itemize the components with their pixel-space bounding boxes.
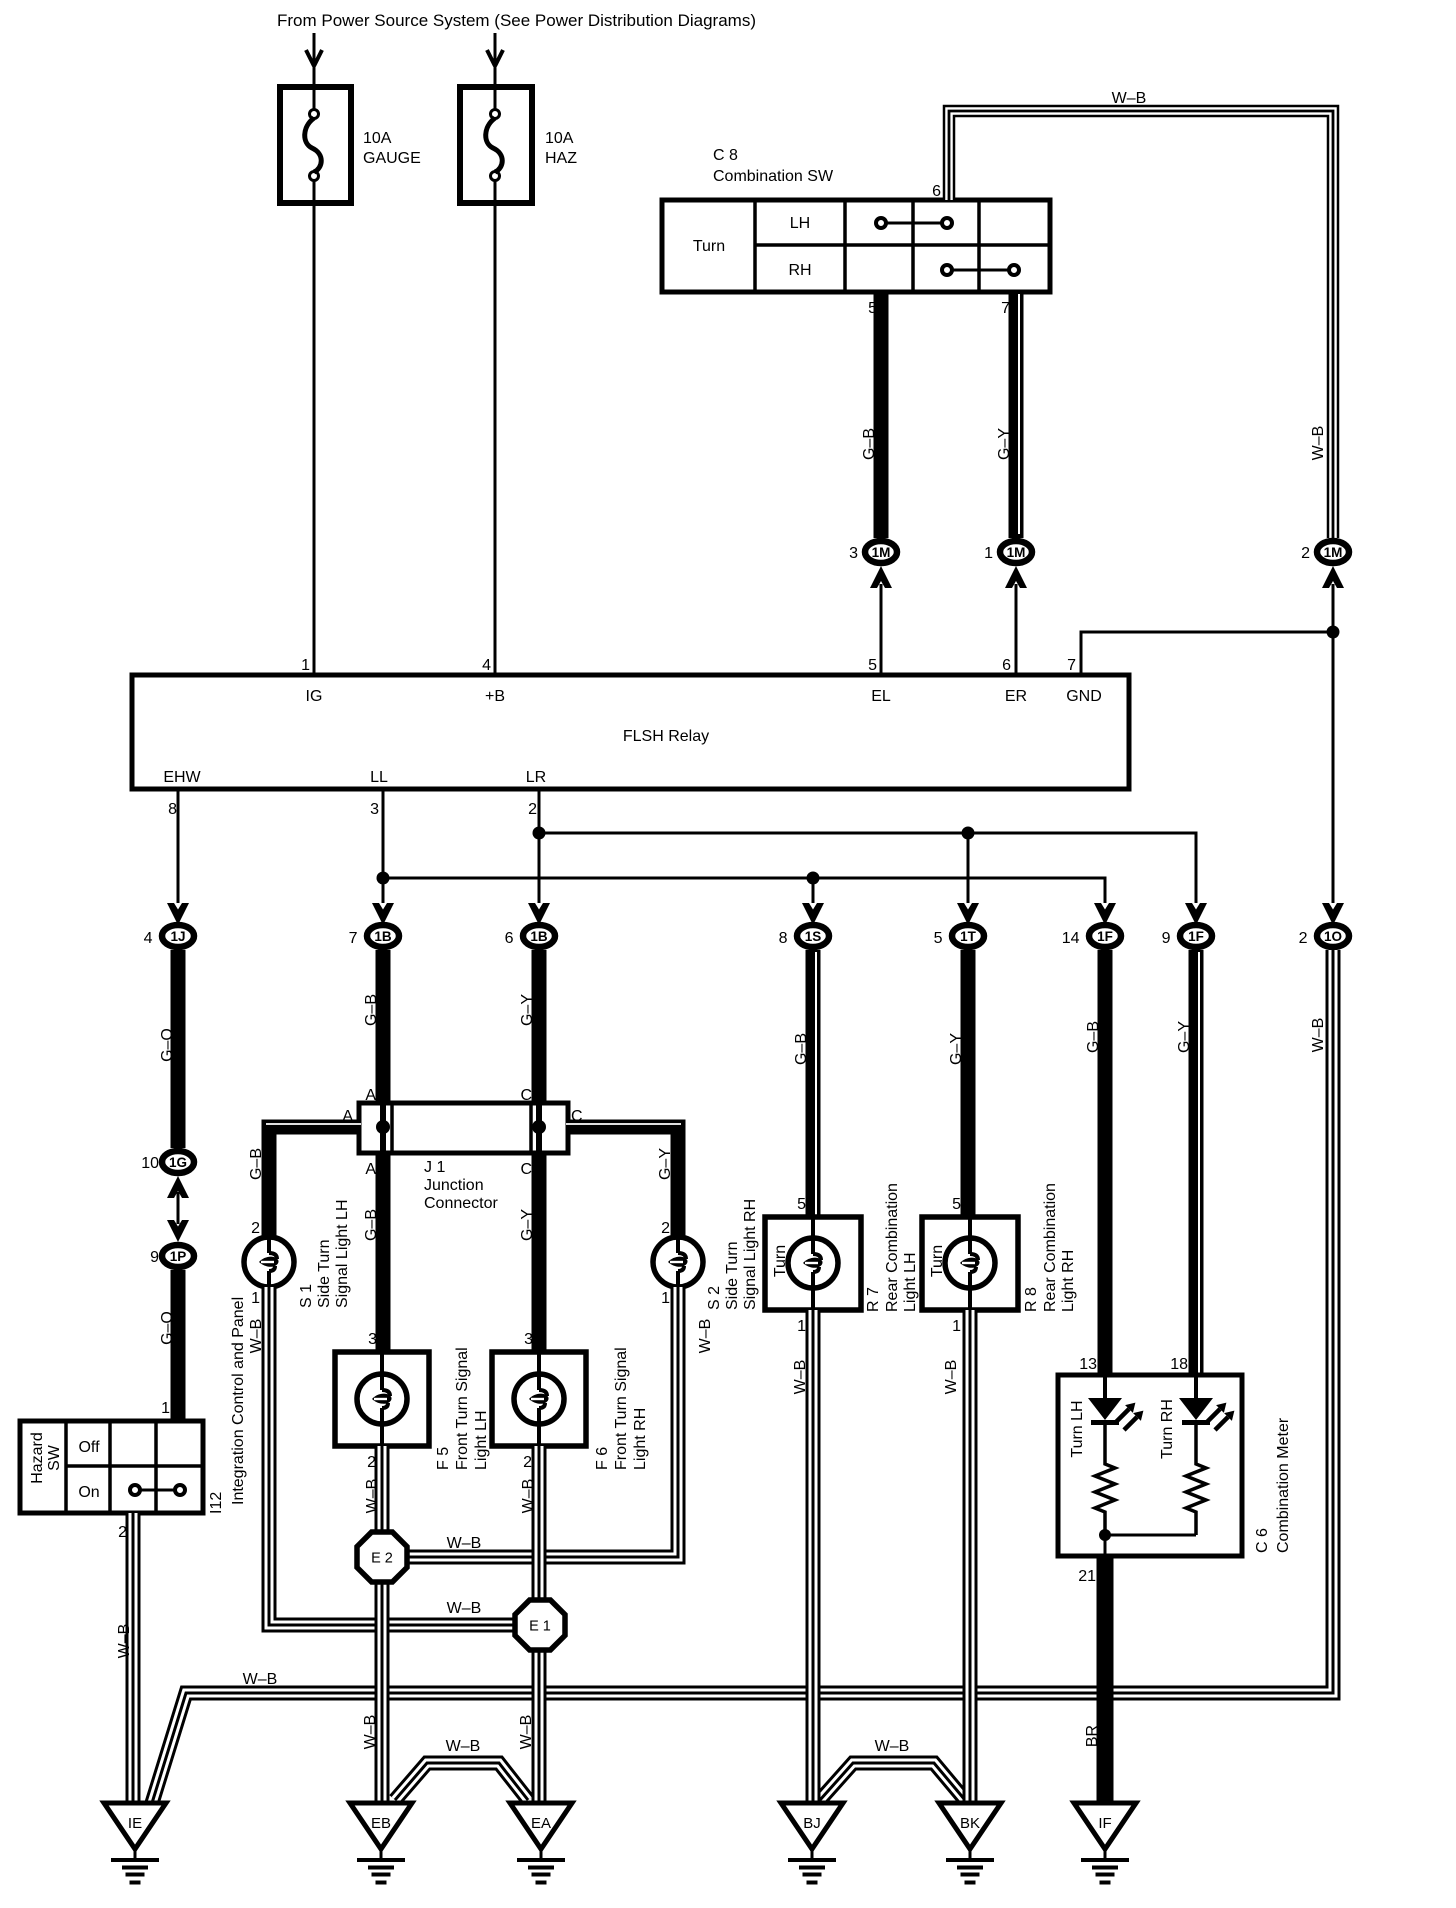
svg-text:G–B: G–B xyxy=(248,1148,265,1180)
junction meter ground xyxy=(1099,1529,1111,1541)
svg-text:1: 1 xyxy=(984,545,993,562)
svg-text:1: 1 xyxy=(161,1400,170,1417)
wire LR to 1B xyxy=(538,789,541,903)
pin 2 label (hazard SW) xyxy=(118,1524,127,1541)
connector 1S xyxy=(797,925,829,947)
label 3 (F5) xyxy=(368,1331,377,1348)
connector 1O xyxy=(1317,925,1349,947)
junction A (J1) xyxy=(376,1120,390,1134)
svg-text:Turn: Turn xyxy=(693,238,725,255)
svg-text:Off: Off xyxy=(78,1439,100,1456)
junction 1S branch xyxy=(807,872,820,885)
svg-text:10: 10 xyxy=(141,1155,159,1172)
svg-text:3: 3 xyxy=(370,801,379,818)
svg-text:IE: IE xyxy=(128,1815,142,1832)
svg-text:14: 14 xyxy=(1062,930,1080,947)
label W-B (EB-EA) xyxy=(446,1738,481,1755)
svg-text:From Power Source System (See: From Power Source System (See Power Dist… xyxy=(277,11,756,30)
label 9 (1F) xyxy=(1162,930,1171,947)
wire EHW to 1J xyxy=(177,789,180,903)
svg-text:2: 2 xyxy=(251,1220,260,1237)
svg-text:W–B: W–B xyxy=(792,1360,809,1395)
connector arrow 1G xyxy=(167,1176,189,1198)
label 9 (1P) xyxy=(150,1249,159,1266)
wire relay GND up and right xyxy=(1081,632,1333,675)
svg-text:1: 1 xyxy=(251,1290,260,1307)
svg-text:Light LH: Light LH xyxy=(473,1410,490,1470)
label G-B xyxy=(861,428,878,460)
wire W-B 1O to IE (long run) xyxy=(152,950,1333,1803)
svg-text:A: A xyxy=(342,1108,353,1125)
svg-text:W–B: W–B xyxy=(364,1479,381,1514)
title: power source note xyxy=(277,11,756,30)
svg-text:W–B: W–B xyxy=(447,1535,482,1552)
svg-text:Signal Light RH: Signal Light RH xyxy=(742,1199,759,1310)
svg-text:W–B: W–B xyxy=(943,1360,960,1395)
label 3 (1M) xyxy=(849,545,858,562)
svg-text:G–B: G–B xyxy=(363,1209,380,1241)
svg-text:1: 1 xyxy=(797,1318,806,1335)
label A (below J1) xyxy=(365,1161,376,1178)
svg-text:1S: 1S xyxy=(805,929,822,944)
svg-text:G–O: G–O xyxy=(159,1311,176,1345)
svg-text:6: 6 xyxy=(932,183,941,200)
label R7 block xyxy=(865,1183,919,1312)
label C (right of J1) xyxy=(571,1108,583,1125)
svg-text:A: A xyxy=(365,1161,376,1178)
label 8 (1S) xyxy=(779,930,788,947)
junction LR bus xyxy=(533,827,546,840)
connector arrow 1F xyxy=(1094,903,1116,925)
meter lead pin21 xyxy=(1104,1535,1107,1556)
label G-B (1F) xyxy=(1085,1021,1102,1053)
label G-B (1B) xyxy=(363,994,380,1026)
label 5 (R8) xyxy=(952,1196,961,1213)
label W-B (R7) xyxy=(792,1360,809,1395)
rear combination light R7 xyxy=(765,1217,861,1310)
label G-Y (1F) xyxy=(1176,1021,1193,1053)
svg-text:W–B: W–B xyxy=(518,1715,535,1750)
label G-Y (1T) xyxy=(948,1033,965,1065)
svg-text:4: 4 xyxy=(482,657,491,674)
svg-text:Turn: Turn xyxy=(929,1245,946,1277)
connector 1M pin2 xyxy=(1317,541,1349,563)
label 21 (meter) xyxy=(1078,1568,1096,1585)
wire G-Y 1B to J1 xyxy=(532,950,547,1103)
power feed arrow (GAUGE) xyxy=(306,50,322,66)
svg-text:Signal Light LH: Signal Light LH xyxy=(334,1199,351,1308)
svg-text:5: 5 xyxy=(934,930,943,947)
ground BJ xyxy=(781,1803,843,1885)
ground IF xyxy=(1074,1803,1136,1885)
label 1 (S2) xyxy=(661,1290,670,1307)
rear combination light R8 xyxy=(922,1217,1018,1310)
connector 1P xyxy=(162,1245,194,1267)
svg-text:1M: 1M xyxy=(1007,545,1026,560)
label 10A HAZ xyxy=(545,130,577,167)
label Turn LH xyxy=(1069,1400,1086,1457)
svg-text:C: C xyxy=(520,1161,532,1178)
wire LL to 1B xyxy=(382,789,385,903)
label W-B (F6-E1) xyxy=(520,1479,537,1514)
svg-text:W–B: W–B xyxy=(243,1671,278,1688)
label G-B (1S) xyxy=(793,1033,810,1065)
svg-text:LH: LH xyxy=(790,215,810,232)
label 2 (S2) xyxy=(661,1220,670,1237)
label G-B (to S1) xyxy=(248,1148,265,1180)
label F5 block xyxy=(435,1347,490,1470)
label BR xyxy=(1084,1725,1101,1747)
connector 1M pin3 xyxy=(865,541,897,563)
label 14 (1F) xyxy=(1062,930,1080,947)
svg-text:IG: IG xyxy=(306,688,323,705)
svg-text:2: 2 xyxy=(523,1454,532,1471)
svg-text:BK: BK xyxy=(960,1815,980,1832)
svg-text:R 7: R 7 xyxy=(865,1287,882,1312)
svg-text:1J: 1J xyxy=(170,929,185,944)
svg-text:J 1: J 1 xyxy=(424,1159,445,1176)
wire G-Y J1 to S2 xyxy=(566,1124,681,1238)
svg-text:3: 3 xyxy=(849,545,858,562)
label F6 block xyxy=(594,1347,649,1470)
lamp S2 side turn signal light RH xyxy=(653,1237,703,1287)
label 1 (1M) xyxy=(984,545,993,562)
svg-text:Side Turn: Side Turn xyxy=(316,1240,333,1308)
label 2 (1M) xyxy=(1301,545,1310,562)
label I12 xyxy=(208,1492,225,1514)
label 7 (1B) xyxy=(349,930,358,947)
svg-text:Combination SW: Combination SW xyxy=(713,168,834,185)
svg-text:C 6: C 6 xyxy=(1254,1528,1271,1553)
label G-Y (1B) xyxy=(519,994,536,1026)
wire W-B bridge BJ-BK xyxy=(820,1763,965,1800)
label W-B (top) xyxy=(1112,90,1147,107)
label W-B (F5-E2) xyxy=(364,1479,381,1514)
svg-text:EHW: EHW xyxy=(163,769,201,786)
svg-text:W–B: W–B xyxy=(362,1715,379,1750)
label C (above J1) xyxy=(520,1087,532,1104)
wire 1M to relay ER xyxy=(1015,584,1018,675)
connector E1 xyxy=(515,1600,565,1650)
svg-text:2: 2 xyxy=(1299,930,1308,947)
fuse GAUGE 10A xyxy=(280,87,351,203)
label A (left of J1) xyxy=(342,1108,353,1125)
svg-text:W–B: W–B xyxy=(116,1624,133,1659)
svg-text:1: 1 xyxy=(661,1290,670,1307)
svg-text:Rear Combination: Rear Combination xyxy=(884,1183,901,1312)
connector arrow 1B xyxy=(372,903,394,925)
svg-text:On: On xyxy=(78,1484,99,1501)
svg-text:C 8: C 8 xyxy=(713,147,738,164)
wire fuse HAZ to relay +B xyxy=(494,180,497,675)
label C 6 Combination Meter xyxy=(1254,1417,1292,1553)
wire fuse GAUGE to relay IG xyxy=(313,180,316,675)
connector 1B xyxy=(367,925,399,947)
svg-text:S 2: S 2 xyxy=(706,1286,723,1310)
wire BR meter to IF xyxy=(1097,1556,1114,1803)
svg-text:1: 1 xyxy=(301,657,310,674)
label 2 (S1) xyxy=(251,1220,260,1237)
svg-text:1B: 1B xyxy=(530,929,548,944)
svg-text:F 5: F 5 xyxy=(435,1447,452,1470)
wire G-Y J1 to F6 xyxy=(532,1153,547,1352)
svg-text:8: 8 xyxy=(168,801,177,818)
svg-text:2: 2 xyxy=(1301,545,1310,562)
svg-text:7: 7 xyxy=(1067,657,1076,674)
label W-B (hazard) xyxy=(116,1624,133,1659)
label 3 (F6) xyxy=(524,1331,533,1348)
relay FLSH xyxy=(132,675,1129,789)
wire 1G to 1P xyxy=(177,1192,180,1224)
label 2 (F5) xyxy=(367,1454,376,1471)
svg-text:10A: 10A xyxy=(363,130,392,147)
svg-text:ER: ER xyxy=(1005,688,1027,705)
hazard switch I12 xyxy=(20,1421,203,1513)
junction C (J1) xyxy=(532,1120,546,1134)
label W-B (below 1O) xyxy=(1310,1018,1327,1053)
svg-text:G–Y: G–Y xyxy=(996,428,1013,460)
svg-text:21: 21 xyxy=(1078,1568,1096,1585)
connector 1G xyxy=(162,1151,194,1173)
label W-B (S2) xyxy=(697,1319,714,1354)
wire G-B inside J1 xyxy=(380,1103,386,1153)
svg-text:IF: IF xyxy=(1098,1815,1111,1832)
wire W-B hazard SW to IE xyxy=(126,1513,141,1803)
wire W-B bridge EB-EA xyxy=(395,1763,528,1800)
svg-text:C: C xyxy=(520,1087,532,1104)
front turn signal light F6 xyxy=(492,1352,586,1446)
bus wire LL branch xyxy=(383,878,1105,903)
pin labels top (relay) xyxy=(306,688,1102,705)
label 2 (1O) xyxy=(1299,930,1308,947)
resistor turn RH xyxy=(1186,1425,1206,1535)
wire W-B F6 to EA xyxy=(532,1446,547,1803)
wire G-Y 1T to R8 xyxy=(961,950,976,1217)
svg-text:EL: EL xyxy=(871,688,891,705)
svg-text:Turn LH: Turn LH xyxy=(1069,1400,1086,1457)
svg-text:G–B: G–B xyxy=(861,428,878,460)
svg-text:I12: I12 xyxy=(208,1492,225,1514)
pin 6 label (C8) xyxy=(932,183,941,200)
label G-Y xyxy=(996,428,1013,460)
label G-O (lower) xyxy=(159,1311,176,1345)
svg-text:6: 6 xyxy=(505,930,514,947)
svg-text:2: 2 xyxy=(661,1220,670,1237)
fuse HAZ 10A xyxy=(460,87,532,203)
wire W-B S1 to E1 xyxy=(269,1287,516,1625)
meter internal ground bus xyxy=(1105,1534,1196,1537)
svg-text:9: 9 xyxy=(1162,930,1171,947)
svg-text:BJ: BJ xyxy=(803,1815,821,1832)
label A (above J1) xyxy=(365,1087,376,1104)
ground IE xyxy=(104,1803,166,1885)
junction connector J1 xyxy=(359,1103,568,1153)
svg-text:G–Y: G–Y xyxy=(1176,1021,1193,1053)
label G-B (to F5) xyxy=(363,1209,380,1241)
svg-text:7: 7 xyxy=(349,930,358,947)
label W-B (R8) xyxy=(943,1360,960,1395)
connector 1J xyxy=(162,925,194,947)
connector 1B xyxy=(523,925,555,947)
label Turn RH xyxy=(1159,1399,1176,1459)
pin 7 label (C8) xyxy=(1001,300,1010,317)
wire W-B R8 to BK xyxy=(963,1310,978,1803)
indicator LED turn RH xyxy=(1179,1398,1234,1430)
label G-O (upper) xyxy=(159,1028,176,1062)
label C (below J1) xyxy=(520,1161,532,1178)
svg-text:G–Y: G–Y xyxy=(948,1033,965,1065)
wire 1M pin2 down to 1O xyxy=(1332,584,1335,903)
svg-text:13: 13 xyxy=(1079,1356,1097,1373)
svg-text:G–B: G–B xyxy=(363,994,380,1026)
wire G-O 1J to 1G xyxy=(171,950,186,1148)
connector E2 xyxy=(357,1532,407,1582)
resistor turn LH xyxy=(1095,1425,1115,1535)
label 10 (1G) xyxy=(141,1155,159,1172)
svg-text:Junction: Junction xyxy=(424,1177,484,1194)
wire to 1T xyxy=(967,833,970,903)
connector 1M pin1 xyxy=(1000,541,1032,563)
label W-B (EB) xyxy=(362,1715,379,1750)
svg-text:5: 5 xyxy=(868,657,877,674)
svg-text:EB: EB xyxy=(371,1815,391,1832)
label W-B (EA) xyxy=(518,1715,535,1750)
power feed arrow (HAZ) xyxy=(487,50,503,66)
bus wire LR branch xyxy=(539,833,1196,903)
label 5 (1T) xyxy=(934,930,943,947)
wire W-B C8 pin6 loop to 1M xyxy=(949,111,1333,538)
lamp S1 side turn signal light LH xyxy=(244,1237,294,1287)
svg-text:8: 8 xyxy=(779,930,788,947)
svg-text:C: C xyxy=(571,1108,583,1125)
svg-text:W–B: W–B xyxy=(447,1600,482,1617)
wire G-B 1S to R7 xyxy=(813,950,816,1217)
svg-text:1: 1 xyxy=(952,1318,961,1335)
connector arrow 1M pin3 xyxy=(870,566,892,588)
svg-text:Light LH: Light LH xyxy=(902,1252,919,1312)
connector arrow 1M pin1 xyxy=(1005,566,1027,588)
switch contact RH xyxy=(942,265,1019,275)
svg-text:1F: 1F xyxy=(1097,929,1113,944)
connector arrow 1B xyxy=(528,903,550,925)
wire G-B J1 to F5 xyxy=(376,1153,391,1352)
indicator LED turn LH xyxy=(1088,1398,1143,1430)
connector 1F xyxy=(1180,925,1212,947)
svg-text:G–Y: G–Y xyxy=(519,1209,536,1241)
svg-text:FLSH Relay: FLSH Relay xyxy=(623,728,709,745)
svg-text:LL: LL xyxy=(370,769,388,786)
label 2 (F6) xyxy=(523,1454,532,1471)
pin numbers bottom (relay) xyxy=(168,801,537,818)
junction LL bus xyxy=(377,872,390,885)
connector arrow 1F xyxy=(1185,903,1207,925)
svg-text:1F: 1F xyxy=(1188,929,1204,944)
label C 8 Combination SW xyxy=(713,147,834,185)
ground EA xyxy=(510,1803,572,1885)
wire G-Y 1F to meter pin18 xyxy=(1196,950,1199,1375)
svg-text:1G: 1G xyxy=(169,1155,187,1170)
switch contact LH xyxy=(876,218,952,228)
svg-text:5: 5 xyxy=(797,1196,806,1213)
svg-text:GND: GND xyxy=(1066,688,1102,705)
svg-text:Connector: Connector xyxy=(424,1195,498,1212)
svg-text:1M: 1M xyxy=(872,545,891,560)
svg-text:Turn: Turn xyxy=(772,1245,789,1277)
combination switch C8 xyxy=(662,200,1050,292)
pin numbers top (relay) xyxy=(301,657,1076,674)
label W-B (long run) xyxy=(243,1671,278,1688)
svg-text:9: 9 xyxy=(150,1249,159,1266)
svg-text:W–B: W–B xyxy=(1310,426,1327,461)
svg-text:R 8: R 8 xyxy=(1023,1287,1040,1312)
label R8 block xyxy=(1023,1183,1077,1312)
wire W-B F5 to EB xyxy=(375,1446,390,1803)
connector arrow 1O xyxy=(1322,903,1344,925)
label 4 (1J) xyxy=(144,930,153,947)
pin 5 label (C8) xyxy=(868,300,877,317)
svg-text:E 2: E 2 xyxy=(371,1550,393,1566)
wire W-B R7 to BJ xyxy=(806,1310,821,1803)
label 1 (R8) xyxy=(952,1318,961,1335)
svg-text:W–B: W–B xyxy=(520,1479,537,1514)
wire from power source to fuse HAZ xyxy=(494,33,497,112)
svg-text:Rear Combination: Rear Combination xyxy=(1042,1183,1059,1312)
label S2 block xyxy=(706,1199,759,1310)
svg-text:2: 2 xyxy=(528,801,537,818)
svg-text:G–B: G–B xyxy=(1085,1021,1102,1053)
label W-B (S1) xyxy=(248,1319,265,1354)
svg-text:A: A xyxy=(365,1087,376,1104)
meter lead pin18 xyxy=(1194,1375,1198,1400)
label 1 (R7) xyxy=(797,1318,806,1335)
hazard switch contact On xyxy=(130,1485,185,1495)
combination meter C6 xyxy=(1058,1375,1242,1556)
ground EB xyxy=(350,1803,412,1885)
label Integration Control and Panel xyxy=(230,1297,247,1505)
svg-text:W–B: W–B xyxy=(1310,1018,1327,1053)
connector 1F xyxy=(1089,925,1121,947)
meter lead pin13 xyxy=(1103,1375,1107,1400)
svg-text:W–B: W–B xyxy=(446,1738,481,1755)
pin labels bottom (relay) xyxy=(163,769,546,786)
pin 1 label (hazard SW) xyxy=(161,1400,170,1417)
svg-text:HAZ: HAZ xyxy=(545,150,577,167)
svg-text:G–B: G–B xyxy=(793,1033,810,1065)
svg-text:1P: 1P xyxy=(170,1249,187,1264)
svg-text:SW: SW xyxy=(46,1444,63,1471)
svg-text:Turn RH: Turn RH xyxy=(1159,1399,1176,1459)
label S1 block xyxy=(298,1199,351,1308)
svg-text:Light RH: Light RH xyxy=(1060,1250,1077,1312)
svg-text:RH: RH xyxy=(788,262,811,279)
svg-text:3: 3 xyxy=(524,1331,533,1348)
wire from power source to fuse GAUGE xyxy=(313,33,316,112)
svg-text:W–B: W–B xyxy=(248,1319,265,1354)
connector arrow 1T xyxy=(957,903,979,925)
svg-text:1M: 1M xyxy=(1324,545,1343,560)
svg-text:Light RH: Light RH xyxy=(632,1408,649,1470)
svg-text:Combination Meter: Combination Meter xyxy=(1275,1417,1292,1553)
connector 1T xyxy=(952,925,984,947)
label 10A GAUGE xyxy=(363,130,421,167)
svg-text:EA: EA xyxy=(531,1815,551,1832)
svg-text:W–B: W–B xyxy=(697,1319,714,1354)
label W-B (E1 run) xyxy=(447,1600,482,1617)
wire G-Y inside J1 xyxy=(536,1103,542,1153)
svg-text:Front Turn Signal: Front Turn Signal xyxy=(454,1347,471,1470)
svg-text:Front Turn Signal: Front Turn Signal xyxy=(613,1347,630,1470)
svg-text:1T: 1T xyxy=(960,929,977,944)
